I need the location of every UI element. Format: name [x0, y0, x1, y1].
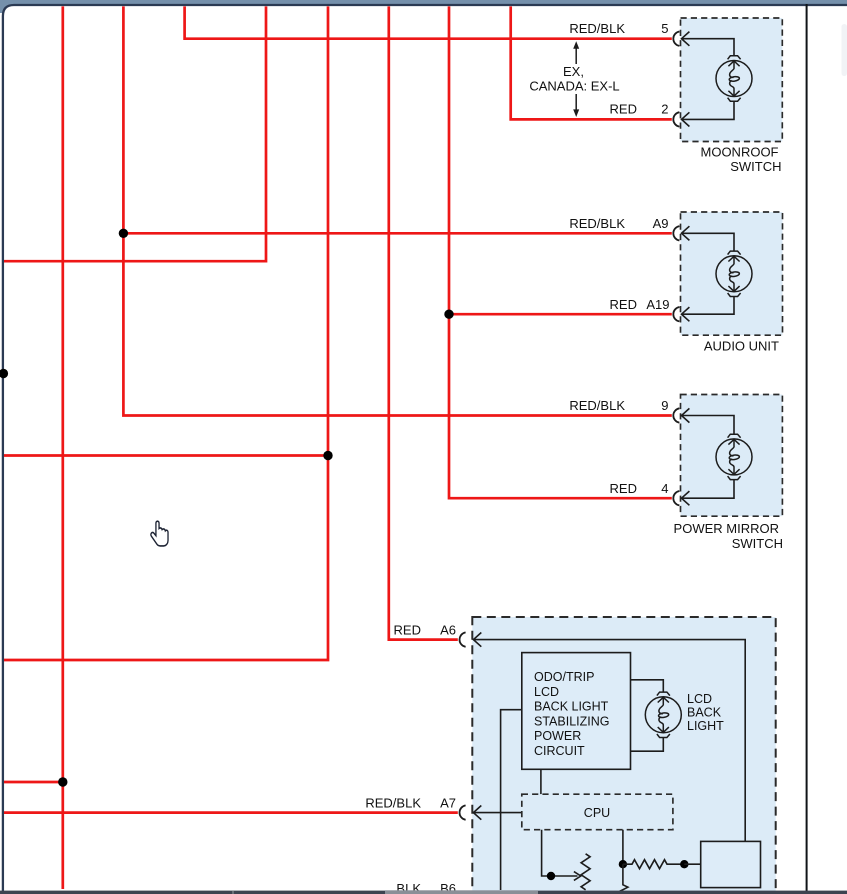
wire RED/BLK A7	[4, 811, 458, 814]
svg-text:A7: A7	[440, 796, 456, 811]
svg-text:RED: RED	[610, 102, 637, 117]
right panel border	[806, 4, 808, 892]
CPU box	[522, 794, 673, 830]
junction dot R left	[619, 860, 627, 868]
wire A6 to lighting box	[473, 640, 745, 842]
wire ODO box left branch	[501, 710, 522, 890]
wire left stub y455	[4, 454, 328, 457]
lamp moonroof	[716, 56, 752, 101]
wire ODO box to CPU	[540, 769, 542, 794]
svg-text:4: 4	[661, 481, 668, 496]
junction dot at left border	[0, 369, 8, 378]
svg-text:POWER MIRROR: POWER MIRROR	[674, 521, 779, 536]
wire vertical to RED/BLK 5	[185, 6, 672, 38]
svg-text:POWER: POWER	[534, 729, 581, 743]
wire vertical to RED 2	[511, 6, 672, 119]
connector paren A6	[460, 632, 466, 646]
faint scrollbar thumb top right	[842, 24, 847, 76]
svg-text:A6: A6	[440, 623, 456, 638]
svg-text:RED/BLK: RED/BLK	[569, 216, 625, 231]
connector terminal pin 2	[682, 112, 690, 126]
svg-text:SWITCH: SWITCH	[732, 536, 783, 551]
svg-text:RED: RED	[394, 623, 421, 638]
wire A7 to CPU	[473, 812, 521, 814]
moonroof switch box	[681, 18, 783, 142]
power mirror switch box	[681, 395, 783, 517]
EX / CANADA note arrows	[575, 44, 577, 114]
connector paren pin 5	[673, 32, 679, 46]
audio unit box	[681, 212, 783, 335]
svg-text:MOONROOF: MOONROOF	[701, 145, 779, 160]
connector paren pin 2	[673, 112, 679, 126]
svg-text:RED/BLK: RED/BLK	[569, 21, 625, 36]
connector paren A19	[673, 307, 679, 321]
wire RED/BLK A9	[123, 232, 671, 235]
junction dot wiper	[547, 872, 555, 880]
svg-text:CIRCUIT: CIRCUIT	[534, 744, 585, 758]
svg-text:RED: RED	[610, 481, 637, 496]
connector terminal pin 5	[682, 32, 690, 46]
bottom scrollbar thumb	[385, 890, 538, 894]
connector terminal pin4	[682, 491, 690, 505]
moonroof lamp wiring	[682, 39, 735, 120]
hand cursor	[151, 521, 168, 546]
LCD back light caption	[687, 692, 724, 733]
svg-text:CPU: CPU	[584, 806, 610, 820]
wire vertical bus elbow left y261	[4, 6, 266, 261]
svg-text:2: 2	[661, 102, 668, 117]
wire vertical bus 2 to RED/BLK 9	[123, 6, 671, 415]
svg-text:ODO/TRIP: ODO/TRIP	[534, 670, 594, 684]
junction dot C	[323, 451, 332, 460]
svg-text:BACK: BACK	[687, 706, 722, 720]
window corner patch	[0, 0, 13, 13]
svg-text:9: 9	[661, 398, 668, 413]
svg-text:EX,: EX,	[563, 64, 584, 79]
wire vertical to RED A6	[389, 6, 458, 639]
connector paren pin9	[673, 408, 679, 422]
junction dot D	[58, 777, 67, 786]
wiper arrowhead	[574, 872, 581, 881]
svg-text:LIGHT: LIGHT	[687, 719, 724, 733]
lamp power mirror	[716, 434, 752, 479]
power mirror lamp wiring	[682, 416, 735, 499]
wire vertical bus 1	[61, 6, 64, 889]
ODO box text	[534, 670, 609, 758]
ODO/TRIP stabilizing circuit box	[522, 653, 631, 770]
svg-text:SWITCH: SWITCH	[730, 159, 781, 174]
svg-text:A9: A9	[653, 216, 669, 231]
lighting control solid box	[701, 841, 761, 887]
bottom window bar	[0, 891, 847, 894]
wire CPU to dimmer wiper	[542, 830, 578, 876]
svg-text:A19: A19	[646, 297, 669, 312]
lamp LCD back light	[645, 692, 681, 737]
svg-text:5: 5	[661, 21, 668, 36]
junction dot B	[444, 310, 453, 319]
bottom bar separator	[232, 891, 234, 894]
audio lamp wiring	[682, 233, 735, 314]
LCD back light lamp wiring	[631, 680, 664, 751]
connector terminal A19	[682, 307, 690, 321]
connector terminal A7	[473, 806, 481, 820]
svg-text:LCD: LCD	[534, 685, 559, 699]
svg-text:STABILIZING: STABILIZING	[534, 714, 609, 728]
svg-text:RED/BLK: RED/BLK	[569, 398, 625, 413]
wire left stub y782	[4, 781, 63, 784]
connector paren A7	[460, 805, 466, 819]
svg-text:BACK LIGHT: BACK LIGHT	[534, 700, 609, 714]
top window bar	[0, 0, 847, 5]
wire vertical bus elbow left y660	[4, 6, 328, 660]
svg-text:AUDIO UNIT: AUDIO UNIT	[704, 339, 779, 354]
resistor R (horizontal zigzag)	[623, 860, 684, 869]
junction dot A	[119, 229, 128, 238]
wire R to lighting control box	[684, 863, 700, 865]
wire CPU to resistor R	[622, 830, 624, 865]
gauge assembly dashed box	[472, 617, 775, 894]
svg-text:RED/BLK: RED/BLK	[365, 796, 421, 811]
svg-text:LCD: LCD	[687, 692, 712, 706]
connector terminal A9	[682, 226, 690, 240]
wire vertical to RED 4	[449, 6, 672, 498]
svg-text:CANADA: EX-L: CANADA: EX-L	[529, 79, 619, 94]
resistor dimmer (vertical zigzag)	[581, 854, 590, 890]
connector paren A9	[673, 226, 679, 240]
junction dot R right	[680, 860, 688, 868]
connector paren pin4	[673, 491, 679, 505]
wire RED A19	[449, 313, 672, 316]
connector terminal A6	[473, 633, 481, 647]
wire below junction to lower resistor	[620, 864, 628, 891]
lamp audio	[716, 251, 752, 296]
connector terminal pin9	[682, 408, 690, 422]
svg-text:RED: RED	[610, 297, 637, 312]
